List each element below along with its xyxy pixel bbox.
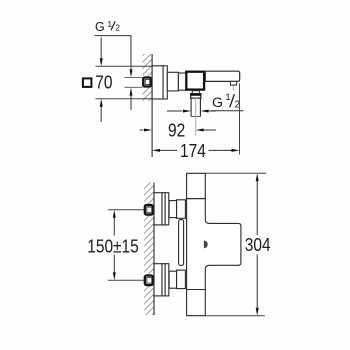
rear housing between connections bbox=[179, 220, 184, 266]
svg-text:2: 2 bbox=[115, 23, 120, 33]
svg-text:174: 174 bbox=[180, 141, 206, 161]
union nut top connection bbox=[145, 205, 153, 215]
connection nut bottom bbox=[177, 270, 186, 289]
svg-text:1: 1 bbox=[107, 19, 112, 29]
svg-text:G: G bbox=[95, 20, 105, 34]
svg-text:92: 92 bbox=[168, 120, 185, 140]
wall hatching (lower view) bbox=[144, 183, 154, 204]
mousseur nub under spout bbox=[230, 81, 237, 85]
wall line (lower view) bbox=[153, 183, 155, 316]
svg-text:70: 70 bbox=[95, 72, 112, 92]
escutcheon bottom (plan) bbox=[154, 264, 162, 296]
S-union bottom bbox=[169, 271, 177, 288]
diverter bump on spout block bbox=[204, 241, 208, 249]
connection nut top bbox=[177, 200, 186, 219]
supply pipe through wall bbox=[125, 77, 143, 79]
svg-text:304: 304 bbox=[245, 235, 271, 255]
connector piece B bbox=[178, 73, 186, 90]
water tick bbox=[232, 86, 234, 91]
shower outlet pipe bbox=[190, 98, 192, 116]
dimension 150±15 bbox=[87, 210, 144, 280]
escutcheon top (plan) bbox=[154, 193, 162, 225]
spout (side) bbox=[205, 71, 239, 81]
dimension 70 (square symbol) bbox=[83, 38, 152, 123]
escutcheon plate (upper view, side) bbox=[152, 66, 163, 99]
S-union top bbox=[169, 201, 177, 218]
dimension 304 bbox=[205, 173, 270, 315]
connector piece A bbox=[167, 72, 178, 91]
thermostat body block (bold) bbox=[186, 72, 204, 90]
label G1/2 (top left) bbox=[94, 19, 132, 110]
neck under body block bbox=[192, 91, 199, 94]
pipe centerline bbox=[195, 98, 197, 136]
body column bbox=[187, 173, 206, 198]
dimension 174 bbox=[152, 84, 240, 162]
union nut bottom connection bbox=[145, 276, 153, 286]
union nut behind wall (upper view) bbox=[143, 78, 151, 87]
svg-text:1: 1 bbox=[225, 92, 230, 103]
collar (shower outlet nut) bbox=[191, 94, 201, 99]
label G1/2 (right, at shower outlet) bbox=[167, 92, 244, 113]
wall hatching (upper view) bbox=[143, 54, 153, 76]
wall line (upper view) bbox=[151, 54, 153, 157]
dimension 92 bbox=[140, 120, 216, 140]
svg-text:150±15: 150±15 bbox=[87, 236, 138, 256]
escutcheon flange double line bbox=[163, 66, 167, 99]
svg-text:G: G bbox=[212, 95, 223, 111]
